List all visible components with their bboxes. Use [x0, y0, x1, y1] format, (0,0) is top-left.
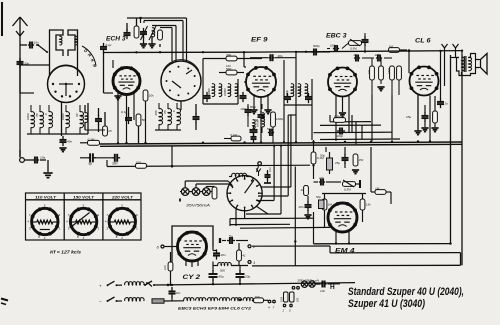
svg-text:CL 6: CL 6	[415, 38, 431, 45]
svg-text:10n: 10n	[320, 289, 325, 293]
svg-text:100: 100	[163, 265, 167, 270]
svg-text:0,1M: 0,1M	[231, 133, 238, 137]
svg-text:88: 88	[75, 113, 79, 117]
svg-text:1M: 1M	[375, 187, 380, 191]
svg-text:0,5M: 0,5M	[387, 67, 391, 74]
svg-text:1000p: 1000p	[276, 117, 284, 121]
svg-text:10000: 10000	[207, 88, 211, 96]
svg-text:1: 1	[253, 260, 255, 265]
svg-text:10n: 10n	[34, 41, 39, 45]
svg-text:0,5A: 0,5A	[281, 297, 284, 302]
svg-text:22p: 22p	[353, 53, 359, 57]
svg-text:20n: 20n	[298, 205, 304, 209]
svg-text:EF 9: EF 9	[251, 37, 268, 44]
svg-text:−: −	[99, 299, 102, 304]
svg-text:10000: 10000	[298, 88, 302, 96]
svg-text:88: 88	[35, 113, 39, 117]
svg-text:40n: 40n	[67, 139, 72, 143]
svg-text:220 VOLT: 220 VOLT	[111, 194, 134, 199]
svg-text:0,5M: 0,5M	[334, 115, 341, 119]
svg-text:150 VOLT: 150 VOLT	[73, 194, 95, 199]
svg-text:20µ: 20µ	[244, 275, 250, 279]
svg-text:100p: 100p	[337, 134, 344, 138]
svg-text:10a: 10a	[40, 156, 45, 160]
svg-text:10n: 10n	[319, 176, 324, 180]
svg-text:25µ: 25µ	[334, 161, 340, 165]
svg-text:EBC 3: EBC 3	[326, 33, 347, 40]
svg-text:Standard Szuper 40 U (2040),: Standard Szuper 40 U (2040),	[348, 286, 464, 298]
svg-text:50µ: 50µ	[316, 195, 321, 199]
svg-text:100: 100	[226, 64, 231, 68]
svg-text:13k: 13k	[366, 203, 371, 207]
svg-text:8µ: 8µ	[89, 162, 93, 166]
svg-text:88: 88	[163, 110, 167, 114]
svg-text:800p: 800p	[250, 105, 257, 109]
svg-text:0,1µ: 0,1µ	[106, 43, 112, 47]
svg-text:EBC3 ECH3 EF9 EM4 CL6 CY2: EBC3 ECH3 EF9 EM4 CL6 CY2	[178, 307, 251, 311]
svg-text:100: 100	[136, 161, 141, 165]
svg-text:0,1M: 0,1M	[88, 138, 95, 142]
svg-text:888: 888	[154, 110, 158, 115]
svg-text:1000: 1000	[26, 113, 30, 120]
svg-text:2o: 2o	[444, 101, 449, 105]
svg-text:150: 150	[359, 158, 364, 162]
svg-text:0,1µ: 0,1µ	[121, 110, 127, 114]
svg-text:35V/50mA: 35V/50mA	[186, 204, 211, 208]
svg-text:10n: 10n	[176, 291, 181, 295]
svg-text:CY 2: CY 2	[183, 274, 201, 281]
svg-text:30n: 30n	[112, 162, 118, 166]
svg-text:Kf = 127 kc/s: Kf = 127 kc/s	[50, 250, 82, 255]
svg-text:Szuper 41 U (3040): Szuper 41 U (3040)	[348, 298, 425, 310]
svg-text:25µ: 25µ	[405, 115, 411, 119]
svg-text:+: +	[99, 283, 102, 288]
svg-text:35V/50mA: 35V/50mA	[297, 279, 319, 283]
svg-text:80µ: 80µ	[219, 275, 224, 279]
svg-text:000: 000	[220, 269, 225, 273]
svg-text:10n: 10n	[268, 167, 272, 172]
svg-text:10k: 10k	[149, 94, 154, 98]
svg-text:100: 100	[297, 297, 300, 302]
svg-text:10000: 10000	[223, 88, 227, 96]
svg-text:100p: 100p	[375, 53, 382, 57]
svg-text:H: H	[330, 284, 335, 291]
svg-text:50: 50	[142, 118, 146, 122]
svg-text:100: 100	[255, 295, 260, 299]
svg-text:ECH 3: ECH 3	[106, 36, 126, 43]
svg-text:5µ: 5µ	[229, 235, 233, 239]
svg-text:50µ: 50µ	[320, 154, 325, 158]
svg-text:2: 2	[282, 309, 285, 313]
svg-text:660p: 660p	[285, 90, 289, 96]
svg-text:20n: 20n	[220, 253, 226, 257]
svg-text:0,5M: 0,5M	[350, 47, 357, 51]
svg-text:1M: 1M	[389, 45, 394, 49]
svg-text:800p: 800p	[313, 44, 320, 48]
svg-text:60: 60	[80, 114, 84, 118]
svg-text:30k: 30k	[226, 53, 231, 57]
svg-text:100p: 100p	[330, 44, 337, 48]
svg-text:50: 50	[255, 118, 259, 122]
svg-text:25: 25	[107, 129, 112, 133]
svg-text:41: 41	[242, 254, 246, 258]
svg-text:110 VOLT: 110 VOLT	[35, 194, 57, 199]
svg-text:200p: 200p	[240, 107, 248, 111]
svg-text:0,5M: 0,5M	[344, 188, 351, 192]
